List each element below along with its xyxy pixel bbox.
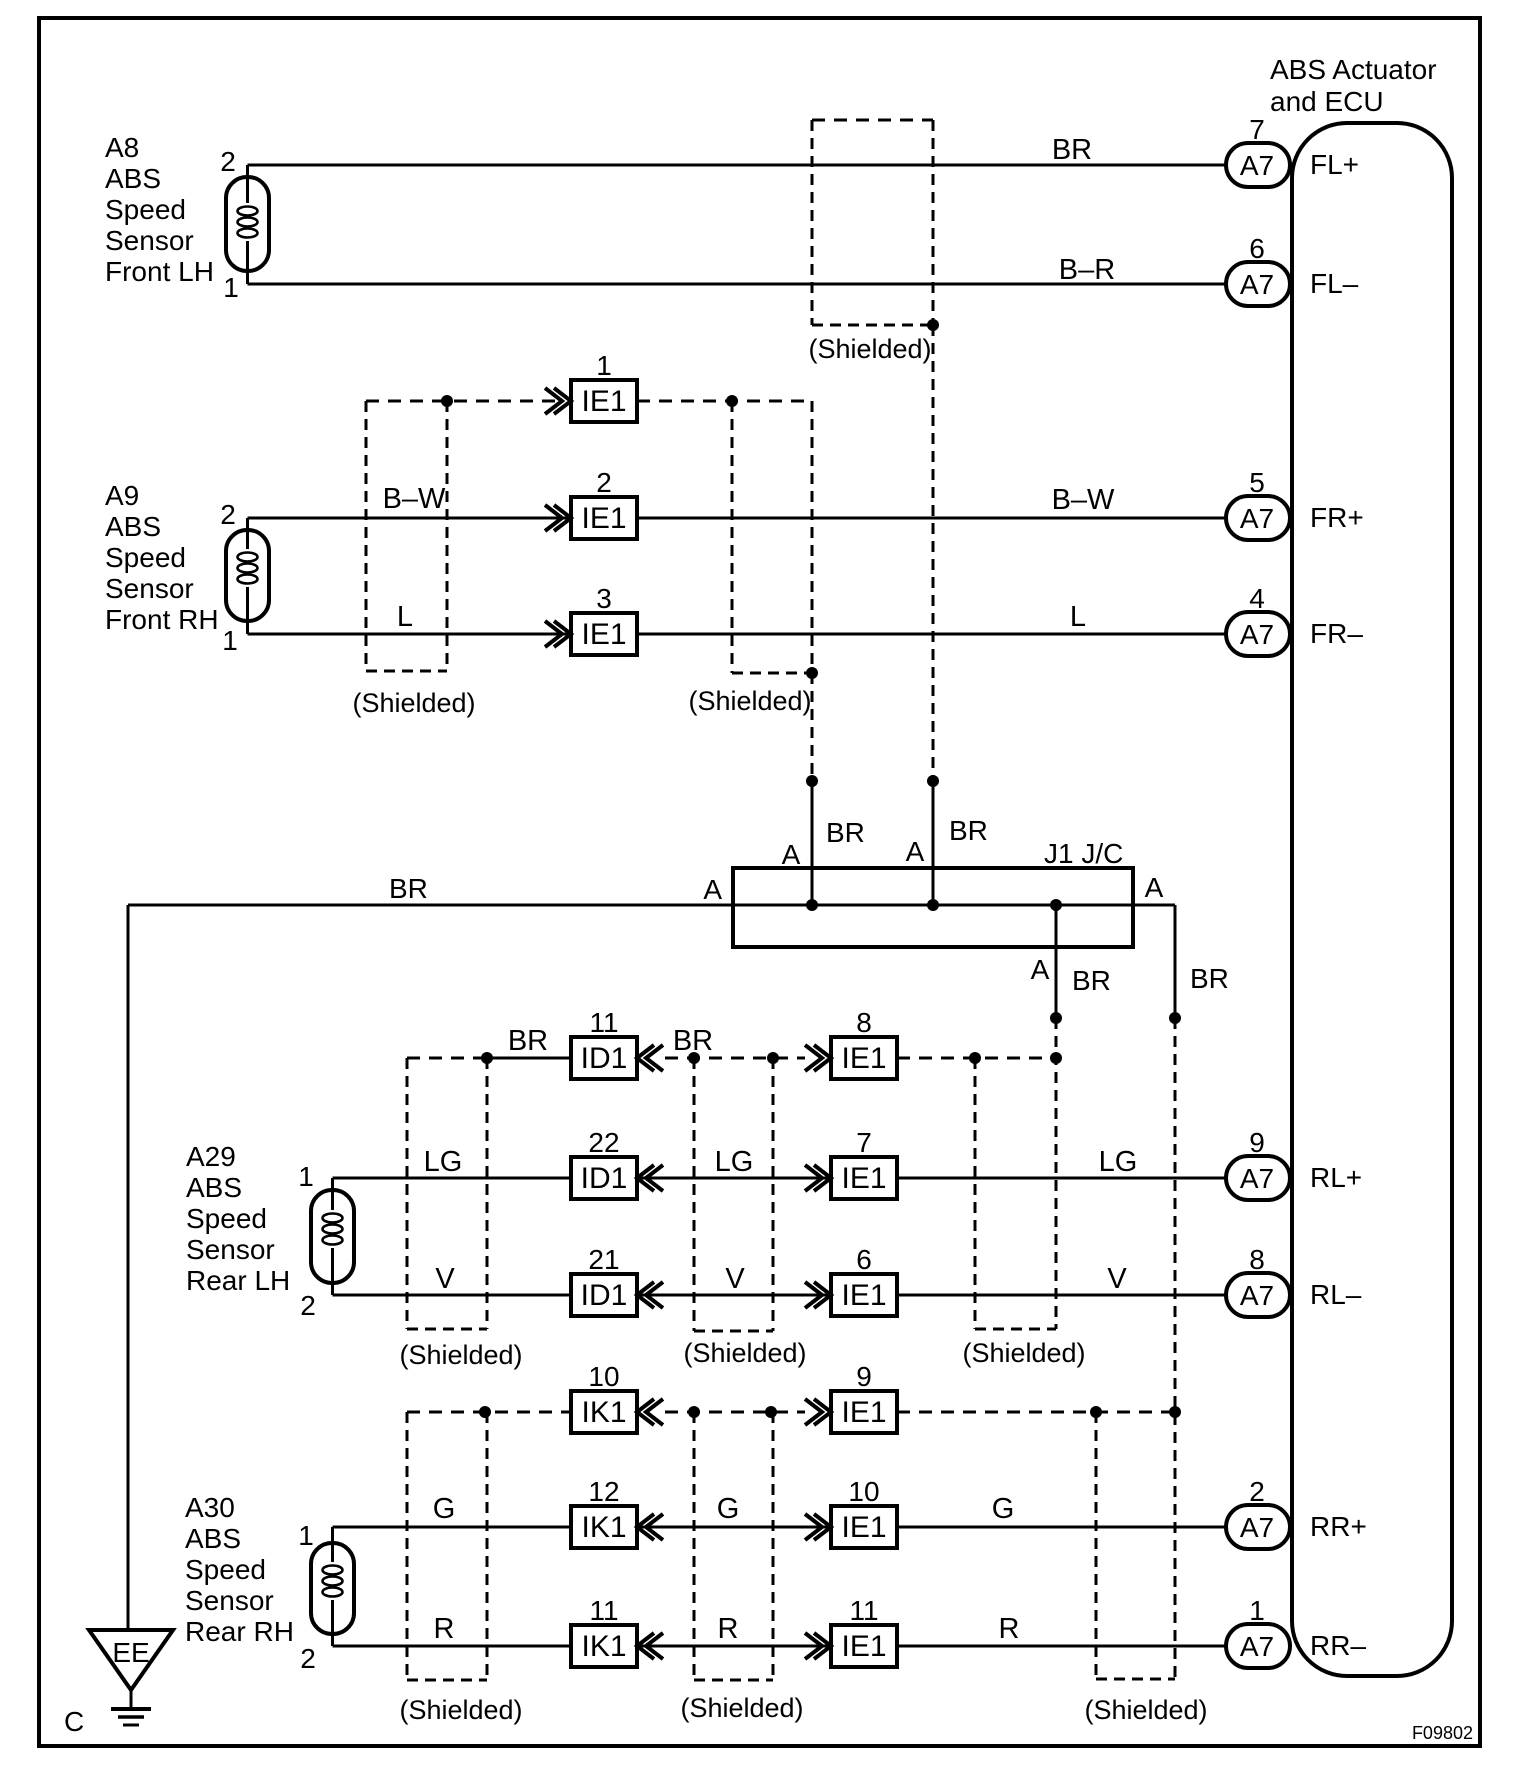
svg-text:R: R — [718, 1613, 739, 1645]
svg-text:B–W: B–W — [383, 483, 446, 515]
svg-text:10: 10 — [588, 1361, 619, 1392]
svg-text:BR: BR — [1052, 134, 1092, 166]
svg-text:7: 7 — [856, 1127, 872, 1158]
svg-text:A7: A7 — [1240, 150, 1274, 181]
svg-text:B–R: B–R — [1059, 254, 1115, 286]
svg-text:IE1: IE1 — [841, 1162, 886, 1195]
svg-text:4: 4 — [1249, 583, 1265, 614]
svg-text:1: 1 — [298, 1161, 314, 1192]
svg-text:B–W: B–W — [1052, 484, 1115, 516]
svg-text:and ECU: and ECU — [1270, 86, 1384, 117]
svg-text:(Shielded): (Shielded) — [399, 1695, 522, 1725]
svg-text:IK1: IK1 — [581, 1396, 626, 1429]
svg-text:IE1: IE1 — [581, 385, 626, 418]
svg-text:IE1: IE1 — [841, 1511, 886, 1544]
svg-text:LG: LG — [1099, 1146, 1138, 1178]
svg-text:ABS Actuator: ABS Actuator — [1270, 54, 1437, 85]
svg-text:Sensor: Sensor — [105, 573, 194, 604]
svg-text:C: C — [64, 1706, 84, 1737]
svg-text:ABS: ABS — [105, 163, 161, 194]
svg-text:FL+: FL+ — [1310, 149, 1359, 180]
svg-text:11: 11 — [849, 1595, 878, 1626]
svg-text:A: A — [703, 874, 722, 905]
svg-text:Sensor: Sensor — [185, 1585, 274, 1616]
svg-text:G: G — [433, 1493, 456, 1525]
svg-text:Rear LH: Rear LH — [186, 1265, 290, 1296]
svg-text:F09802: F09802 — [1412, 1723, 1473, 1743]
svg-text:G: G — [717, 1493, 740, 1525]
svg-text:A7: A7 — [1240, 1631, 1274, 1662]
svg-text:A30: A30 — [185, 1492, 235, 1523]
svg-text:BR: BR — [826, 817, 865, 848]
svg-text:(Shielded): (Shielded) — [808, 334, 931, 364]
svg-text:(Shielded): (Shielded) — [399, 1340, 522, 1370]
svg-text:Front LH: Front LH — [105, 256, 214, 287]
svg-text:ID1: ID1 — [581, 1279, 628, 1312]
svg-text:6: 6 — [856, 1244, 872, 1275]
svg-text:L: L — [1070, 601, 1086, 633]
svg-text:5: 5 — [1249, 467, 1265, 498]
svg-text:FR+: FR+ — [1310, 502, 1364, 533]
svg-text:Speed: Speed — [185, 1554, 266, 1585]
svg-text:A7: A7 — [1240, 269, 1274, 300]
svg-text:7: 7 — [1249, 114, 1265, 145]
svg-text:LG: LG — [715, 1146, 754, 1178]
svg-text:2: 2 — [300, 1643, 316, 1674]
svg-text:IE1: IE1 — [581, 618, 626, 651]
svg-text:V: V — [1107, 1263, 1127, 1295]
svg-text:Speed: Speed — [105, 542, 186, 573]
svg-text:A: A — [782, 839, 801, 870]
svg-text:A8: A8 — [105, 132, 139, 163]
svg-text:1: 1 — [222, 625, 238, 656]
svg-text:A7: A7 — [1240, 619, 1274, 650]
svg-text:2: 2 — [596, 467, 612, 498]
svg-text:IK1: IK1 — [581, 1511, 626, 1544]
svg-text:RL+: RL+ — [1310, 1162, 1362, 1193]
svg-text:11: 11 — [589, 1007, 618, 1038]
svg-text:IE1: IE1 — [841, 1042, 886, 1075]
svg-text:(Shielded): (Shielded) — [688, 686, 811, 716]
svg-text:9: 9 — [1249, 1127, 1265, 1158]
svg-text:3: 3 — [596, 583, 612, 614]
svg-text:Sensor: Sensor — [105, 225, 194, 256]
svg-text:LG: LG — [424, 1146, 463, 1178]
svg-text:BR: BR — [1190, 963, 1229, 994]
svg-text:RL–: RL– — [1310, 1279, 1362, 1310]
svg-text:ABS: ABS — [186, 1172, 242, 1203]
svg-text:1: 1 — [1249, 1595, 1265, 1626]
svg-text:(Shielded): (Shielded) — [352, 688, 475, 718]
svg-text:2: 2 — [220, 499, 236, 530]
svg-text:G: G — [992, 1493, 1015, 1525]
svg-text:IK1: IK1 — [581, 1630, 626, 1663]
svg-text:10: 10 — [848, 1476, 879, 1507]
svg-text:V: V — [725, 1263, 745, 1295]
svg-text:Speed: Speed — [105, 194, 186, 225]
svg-text:J1 J/C: J1 J/C — [1044, 838, 1123, 869]
svg-text:2: 2 — [1249, 1476, 1265, 1507]
svg-text:R: R — [999, 1613, 1020, 1645]
svg-text:IE1: IE1 — [581, 502, 626, 535]
svg-text:(Shielded): (Shielded) — [1084, 1695, 1207, 1725]
svg-text:1: 1 — [223, 272, 239, 303]
svg-text:IE1: IE1 — [841, 1396, 886, 1429]
svg-text:BR: BR — [1072, 965, 1111, 996]
svg-text:Sensor: Sensor — [186, 1234, 275, 1265]
svg-text:A7: A7 — [1240, 1512, 1274, 1543]
svg-text:ABS: ABS — [105, 511, 161, 542]
svg-text:A: A — [1145, 872, 1164, 903]
svg-text:ABS: ABS — [185, 1523, 241, 1554]
svg-text:(Shielded): (Shielded) — [683, 1338, 806, 1368]
svg-text:BR: BR — [389, 873, 428, 904]
svg-text:A7: A7 — [1240, 503, 1274, 534]
svg-text:IE1: IE1 — [841, 1630, 886, 1663]
svg-text:(Shielded): (Shielded) — [962, 1338, 1085, 1368]
svg-text:A7: A7 — [1240, 1280, 1274, 1311]
svg-text:L: L — [397, 601, 413, 633]
svg-text:BR: BR — [673, 1025, 713, 1057]
svg-text:6: 6 — [1249, 233, 1265, 264]
svg-text:V: V — [435, 1263, 455, 1295]
svg-text:A: A — [1031, 954, 1050, 985]
svg-text:RR+: RR+ — [1310, 1511, 1367, 1542]
svg-text:22: 22 — [588, 1127, 619, 1158]
svg-text:EE: EE — [112, 1637, 149, 1668]
svg-text:BR: BR — [949, 815, 988, 846]
svg-text:A: A — [906, 836, 925, 867]
svg-text:12: 12 — [588, 1476, 619, 1507]
svg-text:8: 8 — [1249, 1244, 1265, 1275]
svg-text:Rear RH: Rear RH — [185, 1616, 294, 1647]
svg-text:R: R — [434, 1613, 455, 1645]
svg-text:9: 9 — [856, 1361, 872, 1392]
svg-text:8: 8 — [856, 1007, 872, 1038]
svg-text:11: 11 — [589, 1595, 618, 1626]
svg-text:BR: BR — [508, 1025, 548, 1057]
svg-text:2: 2 — [300, 1290, 316, 1321]
svg-text:1: 1 — [298, 1520, 314, 1551]
svg-text:ID1: ID1 — [581, 1162, 628, 1195]
svg-text:FR–: FR– — [1310, 618, 1363, 649]
svg-text:FL–: FL– — [1310, 268, 1359, 299]
svg-text:(Shielded): (Shielded) — [680, 1693, 803, 1723]
svg-text:A29: A29 — [186, 1141, 236, 1172]
svg-text:Front RH: Front RH — [105, 604, 219, 635]
svg-text:Speed: Speed — [186, 1203, 267, 1234]
svg-text:21: 21 — [588, 1244, 619, 1275]
svg-text:1: 1 — [596, 350, 612, 381]
svg-text:RR–: RR– — [1310, 1630, 1366, 1661]
svg-text:IE1: IE1 — [841, 1279, 886, 1312]
svg-text:2: 2 — [220, 146, 236, 177]
svg-text:A7: A7 — [1240, 1163, 1274, 1194]
svg-text:ID1: ID1 — [581, 1042, 628, 1075]
svg-text:A9: A9 — [105, 480, 139, 511]
